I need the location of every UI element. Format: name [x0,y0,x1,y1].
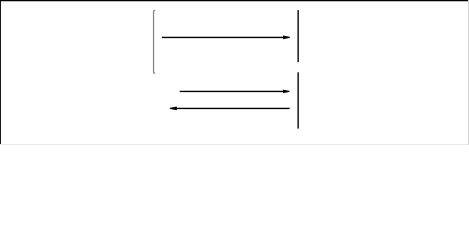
lifeline L2 upper segment (right) [297,10,299,62]
frame right edge [468,0,469,145]
message arrow M2 head [283,90,290,94]
message arrow M1 head [283,36,290,40]
frame bottom edge [0,144,469,145]
message arrow M1 shaft (left to right, top) [162,36,285,38]
message arrow M3 shaft (right to left, bottom) [175,107,290,109]
frame left edge [0,0,2,145]
frame top edge [0,0,469,1]
message arrow M3 head [170,107,177,111]
lifeline L2 lower segment (right) [297,72,299,128]
message arrow M2 shaft (left to right, middle) [180,90,285,92]
lifeline L1 (left, gray bracket) [154,10,156,73]
